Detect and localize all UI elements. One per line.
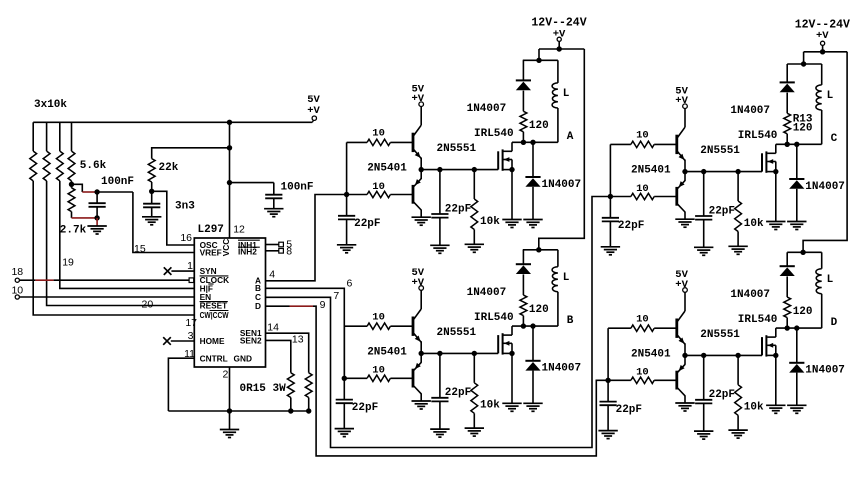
wire drive junction riser stage B — [342, 326, 347, 381]
wire drain node stage D — [776, 327, 822, 329]
transistor 2N5401 stage D — [677, 364, 685, 395]
pin number 1 — [187, 260, 193, 272]
node source-body stage D — [773, 353, 778, 358]
wire drain node stage B — [512, 325, 558, 327]
wire to 22k — [152, 148, 230, 159]
ground below 2N5401 stage B — [412, 401, 431, 409]
label L stage D — [827, 274, 834, 286]
resistor 10 (top base) stage D — [631, 325, 654, 331]
wire gate 22pF to gnd stage B — [439, 401, 441, 429]
wire phase D routing pre — [266, 305, 290, 307]
label 5V stage D — [675, 269, 688, 281]
wire divider to cap (red) — [82, 191, 97, 193]
pin number 2 — [222, 368, 228, 380]
pin number 6 — [347, 278, 353, 290]
wire PNP emitter to node stage A — [420, 170, 422, 179]
wire feed to stage D rail — [803, 52, 847, 253]
svg-text:IRL540: IRL540 — [474, 128, 514, 140]
diode 1N4007 flyback-high stage A — [516, 80, 531, 90]
node 120R junction stage B — [521, 323, 526, 328]
label 22pF gate stage B — [445, 387, 471, 399]
label 10 terminal — [11, 284, 23, 296]
wire bottom base feed stage A — [347, 194, 368, 196]
label 100nF decouple — [281, 181, 314, 193]
wire VREF down and to pin 15 — [133, 192, 194, 253]
svg-text:18: 18 — [11, 266, 23, 278]
wire 120R to node stage C — [786, 134, 788, 145]
node divider — [69, 182, 74, 187]
wire subrail A — [523, 59, 558, 61]
svg-text:B: B — [567, 315, 574, 327]
pin name H|F overline-F — [200, 283, 214, 293]
svg-text:5.6k: 5.6k — [80, 160, 107, 172]
label 1N4007 high stage B — [467, 287, 507, 299]
label 2N5551 stage B — [437, 327, 477, 339]
inductor L (motor winding) stage D — [816, 269, 822, 294]
wire feed to stage B rail — [539, 49, 585, 250]
wire terminal10 to EN pin — [20, 296, 195, 298]
wire node to 100nF — [96, 192, 98, 203]
wire gate line stage B — [421, 352, 498, 354]
wire 22pF to gnd stage D — [607, 405, 609, 430]
node gate 10k tap stage B — [472, 351, 477, 356]
wire 10k to gnd stage B — [473, 413, 475, 428]
label 22k — [159, 162, 179, 174]
wire 10k to gnd stage A — [473, 230, 475, 245]
label phase D — [831, 317, 838, 329]
capacitor 22pF (gate) stage A — [431, 214, 448, 218]
wire rail to high diode stage A — [522, 60, 524, 80]
node D rail — [800, 250, 805, 255]
pin name RESET overline — [200, 301, 228, 311]
wire resistor R4 top — [71, 122, 73, 151]
diode 1N4007 flyback-high stage B — [516, 264, 531, 274]
wire 12V stub r — [822, 46, 824, 52]
pin number 12 — [233, 223, 245, 235]
svg-text:17: 17 — [185, 317, 197, 329]
wire PNP collector to gnd stage C — [684, 212, 686, 220]
ground below input 22pF stage D — [598, 431, 617, 439]
resistor R3 10k (H/F pullup) — [56, 151, 63, 181]
terminal 12V right pair — [821, 41, 825, 45]
wire divider to cap step — [72, 184, 83, 192]
pin name VREF — [200, 247, 222, 257]
resistor 10 (top base) stage B — [367, 323, 390, 329]
label 2N5401 stage A — [367, 163, 407, 175]
terminal ENABLE input 10 — [15, 295, 19, 299]
square input marker CLOCK — [189, 278, 194, 283]
ground below 10k stage D — [728, 430, 747, 438]
wire OSC node to pin 16 — [152, 191, 195, 245]
svg-text:IRL540: IRL540 — [738, 314, 778, 326]
node subrail r — [801, 61, 806, 66]
wire diode to 120R stage D — [786, 276, 788, 297]
label 5V stage B — [411, 267, 424, 279]
wire gate 22pF to gnd stage D — [703, 403, 705, 431]
wire bottom base to Q stage D — [654, 379, 676, 381]
wire rail to high diode stage B — [522, 250, 524, 264]
wire INH1 stub — [266, 244, 279, 246]
pin name INH2 overline — [238, 247, 260, 257]
svg-text:10: 10 — [372, 311, 385, 323]
wire 12V rail r — [804, 51, 848, 53]
wire phase D red segment — [290, 305, 314, 307]
wire 10k to gnd stage C — [737, 232, 739, 247]
ground below 100nF vref — [87, 226, 106, 234]
label 10 top stage C — [636, 130, 649, 142]
wire to gate 22pF stage B — [439, 353, 441, 397]
label 10 bottom stage A — [372, 181, 385, 193]
wire top base to Q stage B — [390, 325, 412, 327]
pin name D — [255, 301, 261, 311]
wire phase D routing — [313, 306, 608, 456]
wire resistor R3 top — [59, 122, 61, 151]
terminal 5V stage C — [683, 104, 688, 109]
node sense1 bus — [306, 408, 311, 413]
ground below gate 22pF stage B — [430, 429, 449, 437]
IC U1 L297 stepper controller body — [194, 238, 265, 367]
node diode junction stage C — [794, 142, 799, 147]
wire drain up stage D — [775, 328, 777, 337]
svg-text:22pF: 22pF — [352, 402, 378, 414]
svg-text:D: D — [831, 317, 838, 329]
svg-text:2: 2 — [222, 368, 228, 380]
label +V right pair — [816, 30, 829, 42]
svg-text:1N4007: 1N4007 — [467, 287, 507, 299]
ground below low diode stage D — [787, 405, 806, 413]
label R13 stage C — [793, 114, 813, 126]
wire sense2 to bus — [290, 398, 292, 412]
label 10 top stage A — [372, 128, 385, 140]
svg-text:10: 10 — [636, 130, 649, 142]
node 22k tap — [227, 145, 232, 150]
wire 120R to node stage D — [786, 318, 788, 329]
wire 5V to collector stage B — [420, 291, 422, 310]
svg-text:SEN2: SEN2 — [240, 335, 262, 345]
label 0R15 3W — [240, 383, 287, 395]
ground below 10k stage B — [465, 428, 484, 436]
svg-text:3n3: 3n3 — [175, 200, 195, 212]
mosfet IRL540 stage C — [762, 151, 776, 172]
svg-text:1: 1 — [187, 260, 193, 272]
svg-text:22pF: 22pF — [616, 404, 642, 416]
wire decouple cap top — [273, 183, 275, 195]
svg-text:1N4007: 1N4007 — [730, 105, 770, 117]
wire drain up stage A — [511, 142, 513, 151]
node gate drive stage B — [419, 351, 424, 356]
pin number 9 — [320, 299, 326, 311]
wire VCC drop 2 — [229, 148, 231, 183]
wire VCC drop — [229, 122, 231, 148]
terminal 5V stage D — [683, 288, 688, 293]
label 22pF gate stage D — [709, 389, 735, 401]
node gate 10k tap stage D — [735, 353, 740, 358]
pin name CNTRL — [200, 353, 228, 363]
wire low diode to gnd stage B — [532, 371, 534, 404]
node 12V rail r — [820, 49, 825, 54]
svg-text:A: A — [567, 131, 574, 143]
pin name GND — [234, 353, 252, 363]
ground below gate 22pF stage C — [694, 247, 713, 255]
wire top base to Q stage D — [654, 327, 676, 329]
node source-body stage A — [509, 167, 514, 172]
wire SYN stub — [171, 270, 194, 272]
svg-text:16: 16 — [180, 232, 192, 244]
ground below decouple cap — [264, 209, 283, 217]
svg-text:2.7k: 2.7k — [60, 224, 87, 236]
ground below 2N5401 stage A — [412, 217, 431, 225]
node gate 10k tap stage C — [735, 169, 740, 174]
svg-text:120: 120 — [529, 304, 549, 316]
wire source to gnd stage C — [775, 172, 777, 222]
wire top base feed stage C — [610, 143, 631, 145]
transistor 2N5551 stage D — [677, 311, 685, 344]
inductor L (motor winding) stage A — [552, 83, 558, 108]
svg-text:1N4007: 1N4007 — [805, 365, 845, 377]
capacitor 22pF (gate) stage C — [695, 216, 712, 220]
pin name SYN — [200, 266, 217, 276]
svg-text:L: L — [827, 274, 834, 286]
wire diode to 120R stage A — [522, 91, 524, 112]
wire SEN1 routing — [266, 333, 309, 373]
svg-text:CW|CCW: CW|CCW — [200, 310, 229, 320]
wire to gnd (red) — [96, 218, 98, 226]
svg-text:IRL540: IRL540 — [738, 130, 778, 142]
wire junction to 22pF stage A — [346, 195, 348, 216]
label 10 bottom stage B — [372, 365, 385, 377]
wire rail drop — [538, 49, 540, 60]
wire emitter to node stage D — [684, 343, 686, 355]
resistor 120 stage B — [520, 295, 527, 316]
pin name CW|CCW overline-CCW — [200, 310, 229, 320]
node OSC — [149, 189, 154, 194]
resistor 120 stage D — [784, 297, 791, 318]
wire to gate 22pF stage D — [703, 355, 705, 399]
wire drain up stage C — [775, 144, 777, 153]
wire VCC to pin 12 — [229, 183, 231, 238]
label 120 stage B — [529, 304, 549, 316]
svg-text:120: 120 — [793, 306, 813, 318]
label 22pF input stage A — [354, 218, 380, 230]
wire emitter to node stage C — [684, 160, 686, 172]
label 1N4007 low stage D — [805, 365, 845, 377]
label phase A — [567, 131, 574, 143]
terminal 5V left — [312, 116, 316, 122]
X no-connect SYN — [164, 267, 172, 275]
wire 120R to node stage A — [522, 132, 524, 143]
wire drain node stage C — [776, 143, 822, 145]
terminal 5V stage B — [419, 286, 424, 291]
svg-text:10: 10 — [636, 183, 649, 195]
node source-body stage C — [773, 169, 778, 174]
wire decouple cap to gnd — [273, 198, 275, 208]
inductor L (motor winding) stage B — [552, 267, 558, 292]
wire coil to node stage C — [821, 110, 823, 144]
svg-text:HOME: HOME — [200, 336, 225, 346]
wire PNP emitter to node stage D — [684, 355, 686, 364]
wire bottom base to Q stage A — [390, 194, 412, 196]
wire node to low diode stage A — [532, 142, 534, 177]
svg-text:22pF: 22pF — [354, 218, 380, 230]
mosfet IRL540 stage A — [498, 149, 512, 170]
label 2N5401 stage D — [631, 348, 671, 360]
svg-text:+V: +V — [816, 30, 829, 42]
ground below gate 22pF stage D — [694, 431, 713, 439]
label 120 stage C — [793, 123, 813, 135]
wire 100nF bottom — [96, 207, 98, 218]
label +V stage B — [411, 277, 424, 289]
node 100nF gnd — [94, 215, 99, 220]
wire diode to 120R stage C — [786, 93, 788, 114]
label 2.7k — [60, 224, 87, 236]
label 2N5401 stage C — [631, 165, 671, 177]
resistor 10 (bottom base) stage D — [631, 377, 654, 383]
label 1N4007 low stage C — [805, 181, 845, 193]
wire low diode to gnd stage A — [532, 187, 534, 220]
label 12V--24V left pair — [531, 16, 586, 29]
resistor 10 (top base) stage A — [367, 139, 390, 145]
label 2N5551 stage C — [700, 145, 740, 157]
label L stage B — [563, 272, 570, 284]
svg-text:1N4007: 1N4007 — [805, 181, 845, 193]
wire terminal18 to CLOCK pin — [54, 279, 190, 281]
resistor 0R15 3W (sense 1) — [305, 373, 312, 398]
svg-text:10: 10 — [372, 128, 385, 140]
resistor R2 10k (RESET pullup) — [43, 151, 50, 181]
ground below MOSFET source stage B — [502, 403, 521, 411]
wire 2.7k to gnd node (red) — [72, 217, 98, 219]
wire terminal18 red seg — [35, 279, 53, 281]
ground below 2N5401 stage C — [675, 219, 694, 227]
ground below low diode stage C — [787, 222, 806, 230]
svg-text:1N4007: 1N4007 — [730, 289, 770, 301]
svg-text:2N5551: 2N5551 — [437, 143, 477, 155]
ground below input 22pF stage A — [337, 245, 356, 253]
wire INH2 stub — [266, 250, 279, 252]
wire 12V rail — [539, 48, 584, 50]
wire drain node stage A — [512, 141, 558, 143]
label 1N4007 high stage D — [730, 289, 770, 301]
resistor 22k — [148, 159, 155, 182]
transistor 2N5401 stage B — [413, 362, 421, 393]
svg-text:10: 10 — [372, 181, 385, 193]
node GND bus — [227, 408, 232, 413]
label +V stage D — [675, 279, 688, 291]
label 18 — [11, 266, 23, 278]
svg-text:8: 8 — [286, 245, 292, 257]
wire 22pF to gnd stage A — [346, 219, 348, 244]
wire gnd stub — [229, 411, 231, 430]
wire gate line stage D — [685, 354, 762, 356]
label 5.6k — [80, 160, 107, 172]
node 100nF decouple tap — [227, 180, 232, 185]
wire gate 22pF to gnd stage A — [439, 218, 441, 246]
ground below 3n3 — [142, 217, 161, 225]
label 10 top stage D — [636, 313, 649, 325]
node gate 22pF tap stage D — [701, 353, 706, 358]
wire bottom base feed stage D — [608, 379, 631, 381]
node VREF filter top — [94, 189, 99, 194]
pin number 15 — [134, 243, 146, 255]
pin number 16 — [180, 232, 192, 244]
wire PNP emitter to node stage C — [684, 172, 686, 181]
pin number 14 — [267, 321, 279, 333]
wire 120R to node stage B — [522, 316, 524, 327]
wire node to low diode stage D — [796, 328, 798, 363]
terminal 5V stage A — [419, 102, 424, 107]
wire coil to node stage B — [557, 292, 559, 326]
label +V stage A — [411, 93, 424, 105]
diode 1N4007 flyback-low stage D — [789, 363, 804, 373]
ground below input 22pF stage B — [335, 429, 354, 437]
transistor 2N5551 stage B — [413, 309, 421, 342]
svg-text:10k: 10k — [480, 400, 500, 412]
node subrail — [536, 58, 541, 63]
svg-text:7: 7 — [333, 290, 339, 302]
node diode junction stage B — [530, 323, 535, 328]
label IRL540 stage B — [474, 312, 514, 324]
label 120 stage A — [529, 120, 549, 132]
wire 5V to collector stage A — [420, 107, 422, 126]
svg-text:1N4007: 1N4007 — [467, 103, 507, 115]
wire low diode to gnd stage D — [796, 373, 798, 406]
X no-connect HOME — [163, 337, 171, 345]
node gate 22pF tap stage C — [701, 169, 706, 174]
svg-text:3x10k: 3x10k — [34, 99, 67, 111]
svg-text:120: 120 — [793, 123, 813, 135]
transistor 2N5401 stage C — [677, 181, 685, 212]
svg-text:L: L — [827, 90, 834, 102]
resistor 10 (bottom base) stage B — [367, 375, 390, 381]
wire rail to coil stage B — [557, 250, 559, 267]
svg-text:L297: L297 — [198, 224, 224, 236]
wire PNP collector to gnd stage B — [420, 393, 422, 401]
diode 1N4007 flyback-low stage A — [525, 177, 540, 187]
wire source to gnd stage A — [511, 170, 513, 220]
ground below low diode stage A — [523, 220, 542, 228]
pin number 3 — [188, 330, 194, 342]
svg-text:GND: GND — [234, 353, 252, 363]
svg-text:100nF: 100nF — [101, 176, 134, 188]
wire divider node to 2.7k — [71, 184, 73, 188]
diode 1N4007 flyback-low stage B — [525, 361, 540, 371]
wire phase A routing — [266, 195, 347, 281]
svg-text:VCC: VCC — [221, 239, 231, 257]
wire 5V to collector stage D — [684, 293, 686, 312]
svg-text:12: 12 — [233, 223, 245, 235]
capacitor 100nF (decoupling) — [265, 195, 282, 199]
resistor 10 (bottom base) stage A — [367, 191, 390, 197]
wire phase B routing — [266, 288, 345, 378]
label 10 bottom stage C — [636, 183, 649, 195]
svg-text:6: 6 — [347, 278, 353, 290]
inductor L (motor winding) stage C — [816, 85, 822, 110]
wire node to low diode stage B — [532, 326, 534, 361]
wire R4 to divider node — [71, 181, 73, 184]
ground below 2N5401 stage D — [675, 403, 694, 411]
pin name C — [255, 292, 261, 302]
label 120 stage D — [793, 306, 813, 318]
wire top base to Q stage C — [654, 143, 676, 145]
label +V left — [307, 105, 320, 117]
label 2N5401 stage B — [367, 346, 407, 358]
svg-text:2N5551: 2N5551 — [700, 145, 740, 157]
label 5V stage A — [411, 83, 424, 95]
wire 5V to collector stage C — [684, 109, 686, 128]
resistor 10k stage B — [471, 383, 478, 414]
mosfet IRL540 stage B — [498, 333, 512, 354]
svg-text:120: 120 — [529, 120, 549, 132]
